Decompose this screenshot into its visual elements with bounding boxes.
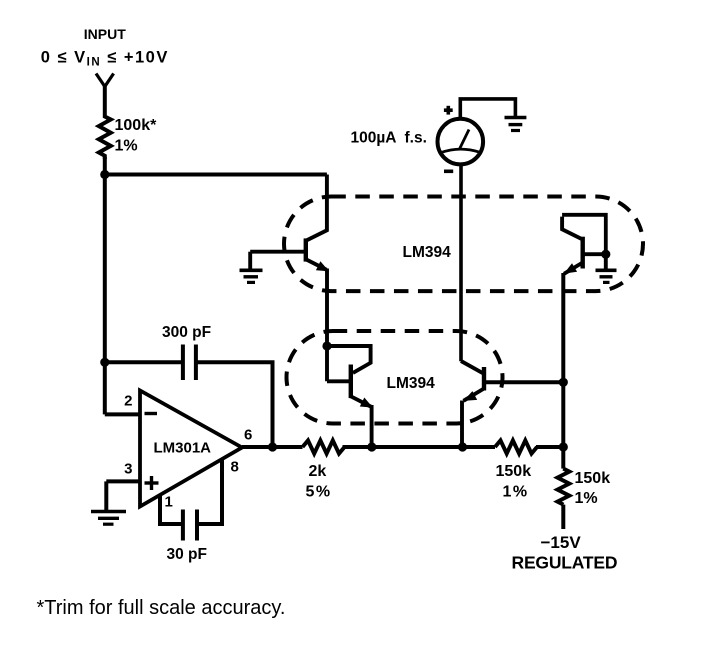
capacitor C2 30 pF <box>181 510 185 541</box>
svg-text:REGULATED: REGULATED <box>512 553 618 573</box>
ground Q2 <box>604 254 608 269</box>
svg-text:2: 2 <box>124 393 132 410</box>
svg-text:LM394: LM394 <box>387 375 436 392</box>
svg-text:1%: 1% <box>575 490 598 507</box>
resistor R2 2k 5% <box>303 440 345 453</box>
ground meter <box>505 116 527 120</box>
svg-text:6: 6 <box>244 427 252 444</box>
wire pin2 <box>105 412 141 416</box>
wire meter plus to ground <box>460 99 515 118</box>
wire op-amp output <box>242 445 303 449</box>
svg-text:3: 3 <box>124 461 132 478</box>
LM394 upper package outline <box>284 197 643 292</box>
svg-text:0 ≤ VIN ≤ +10V: 0 ≤ VIN ≤ +10V <box>41 49 169 69</box>
svg-text:1%: 1% <box>115 138 138 155</box>
svg-text:2k: 2k <box>309 463 327 480</box>
resistor R4 150k 1% vertical <box>558 469 570 505</box>
svg-text:5%: 5% <box>306 484 332 501</box>
svg-text:1: 1 <box>165 494 173 511</box>
svg-text:LM394: LM394 <box>403 244 452 261</box>
meter minus terminal <box>444 170 453 174</box>
svg-text:−15V: −15V <box>541 533 582 552</box>
wire Q4 base to rail <box>484 380 563 384</box>
wire Q1 emitter down to Q3 <box>325 269 329 382</box>
node Q4 emitter junction <box>458 442 467 451</box>
node Q3 emitter junction <box>367 442 376 451</box>
wire pin1 stub <box>160 496 183 525</box>
op-amp U1 LM301A <box>140 391 242 507</box>
transistor Q3 middle-left LM394 <box>322 341 331 350</box>
wire Q4 emitter down <box>460 401 464 448</box>
wire output row right <box>536 445 563 449</box>
transistor Q2 upper-right LM394 <box>581 237 585 269</box>
wire to -15V <box>561 505 565 529</box>
wire resistor to junction <box>103 157 107 175</box>
node Q2 base-collector tie <box>601 250 610 259</box>
svg-text:150k: 150k <box>575 470 611 487</box>
node Q4 base junction <box>559 378 568 387</box>
svg-text:30 pF: 30 pF <box>167 546 207 563</box>
ground Q1 base <box>248 252 252 270</box>
node INPUT terminal <box>96 74 114 87</box>
meter M1 100uA <box>438 119 484 165</box>
svg-text:150k: 150k <box>496 463 532 480</box>
ground pin3 <box>104 481 108 511</box>
wire pin8 stub <box>197 460 222 525</box>
node input junction <box>100 170 109 179</box>
svg-text:INPUT: INPUT <box>84 26 126 42</box>
svg-text:*Trim for full scale accuracy.: *Trim for full scale accuracy. <box>37 597 286 619</box>
svg-text:100µA: 100µA <box>351 130 397 147</box>
svg-text:1%: 1% <box>503 484 529 501</box>
wire rail to R4 <box>561 447 565 469</box>
svg-text:LM301A: LM301A <box>154 440 212 457</box>
wire Q3 emitter down <box>370 405 374 447</box>
svg-text:300 pF: 300 pF <box>162 324 211 341</box>
svg-text:f.s.: f.s. <box>405 130 427 147</box>
LM394 middle package outline <box>287 331 503 424</box>
meter plus terminal <box>446 106 450 115</box>
capacitor C1 300 pF <box>181 345 185 381</box>
resistor R1 100k 1% <box>99 115 111 160</box>
node feedback tap <box>100 358 109 367</box>
wire feedback left <box>105 360 183 364</box>
transistor Q1 upper-left LM394 <box>250 250 304 254</box>
wire input vertical <box>103 86 107 115</box>
wire top horizontal to Q1 collector <box>105 173 327 177</box>
wire meter minus down to Q4 <box>459 164 463 361</box>
svg-text:8: 8 <box>231 459 239 476</box>
wire left rail down to op-amp <box>103 175 107 415</box>
resistor R3 150k 1% <box>495 440 537 453</box>
svg-text:100k*: 100k* <box>115 117 158 134</box>
node right rail bottom <box>559 442 568 451</box>
transistor Q4 middle-right LM394 <box>461 361 484 374</box>
wire feedback right <box>196 362 273 447</box>
wire right rail <box>561 273 565 447</box>
wire output row middle <box>343 445 496 449</box>
wire pin3 <box>106 479 141 483</box>
node output <box>268 442 277 451</box>
